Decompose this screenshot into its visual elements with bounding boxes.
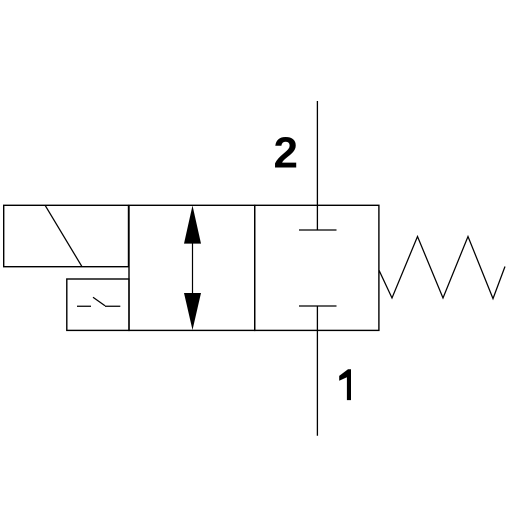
valve body right chamber <box>255 205 379 330</box>
switch box <box>67 279 129 330</box>
label port 1 <box>339 369 351 400</box>
return spring <box>379 237 505 299</box>
valve body middle chamber <box>129 205 255 330</box>
solenoid coil box Y1 <box>4 205 129 266</box>
port 2 seat bar <box>299 229 337 231</box>
port 1 pipe line <box>316 306 318 436</box>
actuation arrow head down <box>184 293 201 330</box>
switch contact symbol <box>77 297 120 306</box>
port 2 pipe line <box>316 101 318 230</box>
actuation arrow head up <box>184 206 201 244</box>
port 1 seat bar <box>299 305 337 307</box>
solenoid coil diagonal <box>45 205 82 266</box>
actuation arrow shaft <box>192 240 194 296</box>
svg-text:2: 2 <box>274 129 298 178</box>
